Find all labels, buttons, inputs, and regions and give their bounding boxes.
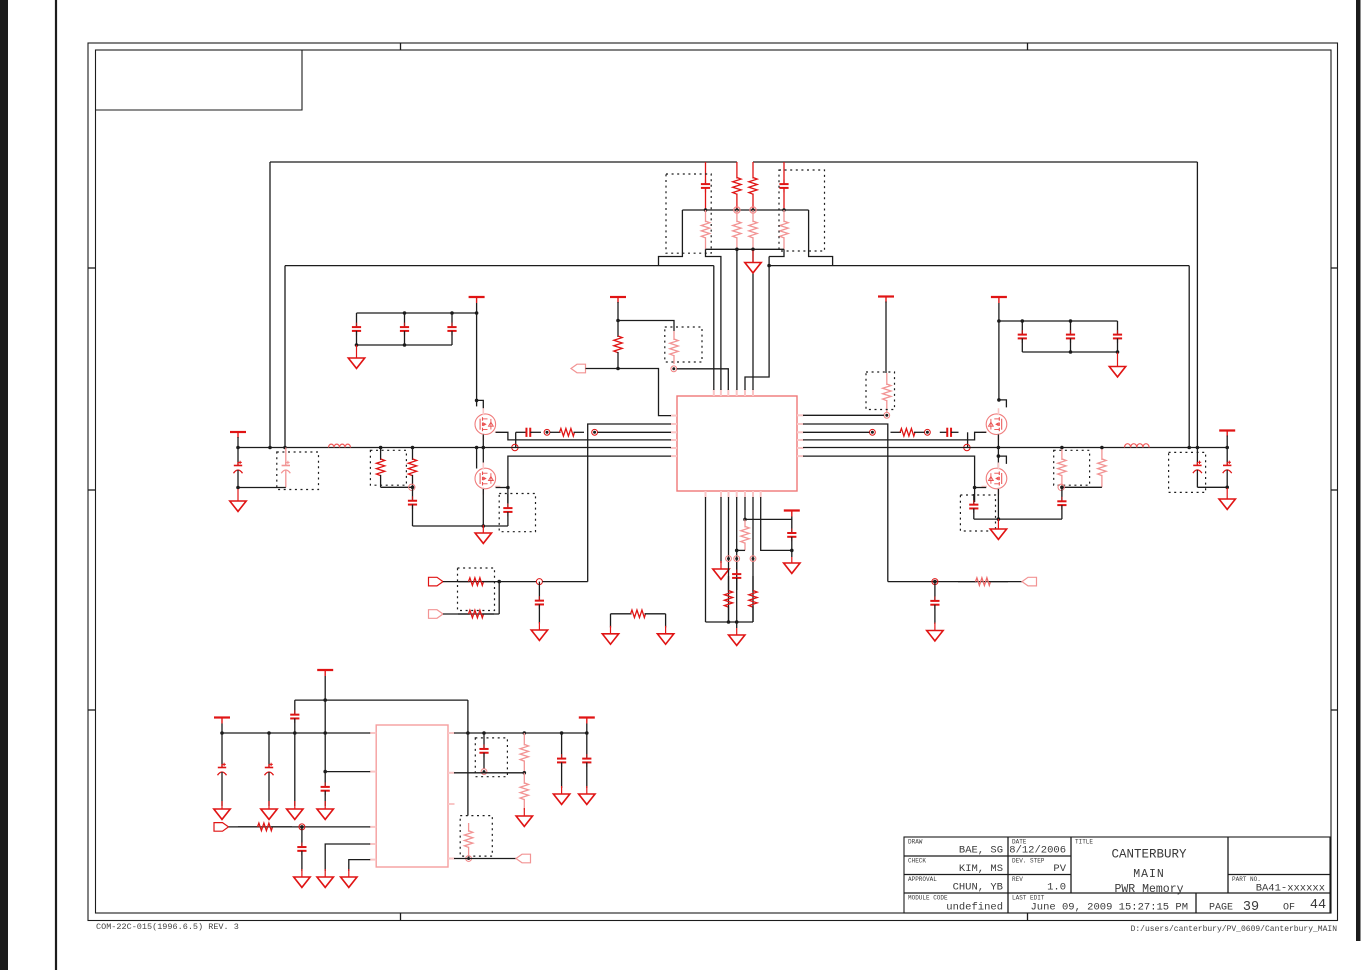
net flag IN1 (429, 577, 444, 586)
wire C10 drop to row448 (515, 432, 517, 447)
wire VIN1 down to Q1 drain (476, 303, 478, 406)
capacitor C8 (1113, 321, 1122, 352)
series resistor R10 (550, 429, 584, 437)
junction cluster mid c (751, 208, 755, 212)
resistor R7 (DNI) (670, 331, 678, 364)
wire U2 right row1 (454, 732, 587, 734)
power symbol VOUT1 (579, 718, 595, 724)
node ring bottom3 (726, 556, 732, 562)
resistor R18 (611, 610, 666, 618)
wire inner loop right vertical (1188, 266, 1190, 448)
frame tick right 1 (1331, 267, 1338, 269)
frame tick left 1 (88, 267, 96, 269)
svg-text:BA41-xxxxxx: BA41-xxxxxx (1256, 883, 1325, 895)
junction row1 b (267, 731, 271, 735)
junction right filter bottom (1225, 486, 1229, 490)
capacitor C22 (787, 519, 796, 550)
wire R12 R13 bottom link (381, 486, 413, 488)
transistor Q2 (475, 463, 500, 495)
wire Q4 source down (997, 489, 999, 519)
capacitor C18 (1057, 487, 1066, 519)
wire left cap bank top (357, 312, 477, 314)
IC U1 body (677, 396, 797, 491)
inductor L2 (1125, 444, 1150, 448)
wire IN1 node right (542, 581, 587, 583)
power symbol VIN1 (469, 297, 485, 303)
capacitor C5 (447, 313, 456, 345)
wire U2 row1 (222, 732, 370, 734)
node ring IN1 (536, 579, 542, 585)
ground pin bottom2 (713, 561, 729, 579)
wire row448 main left (238, 447, 671, 449)
ground U2 b (261, 801, 277, 819)
IC U1 top pin stubs (714, 390, 753, 397)
IC U1 right pin stubs (797, 415, 804, 456)
dotted box C16 (1169, 452, 1206, 492)
node ring EN1 (299, 824, 305, 830)
node ring C12 left (925, 429, 931, 435)
junction right bottom rail (997, 517, 1001, 521)
capacitor C23 (polarized) (218, 733, 227, 806)
dotted box cluster left (666, 174, 711, 253)
wire left bottom rail (413, 525, 508, 527)
junction left bottom rail (482, 524, 486, 528)
wire R18 right leg (665, 614, 667, 628)
capacitor C14 (polarized DNI) (281, 448, 290, 488)
junction row448 inner loop right (1187, 446, 1191, 450)
wire VREF1 rail (745, 517, 792, 520)
capacitor C3 (352, 313, 361, 345)
junction VDD1 (616, 319, 620, 323)
junction C5 top (450, 311, 454, 315)
node ring bottom4 (734, 556, 740, 562)
wire pin bottom7 down (761, 497, 792, 550)
capacitor C4 (400, 313, 409, 345)
capacitor C26 (321, 772, 330, 806)
wire VOUT1 stem (586, 724, 588, 734)
junction U2 right row2 (523, 771, 527, 775)
dotted box R14 (1054, 450, 1090, 485)
node ring R9 bottom (884, 412, 890, 418)
node ring C10 right (544, 429, 550, 435)
ground R25 (516, 808, 532, 826)
dotted box C14 (277, 452, 319, 490)
wire cluster mid rail (682, 209, 808, 211)
svg-text:8/12/2006: 8/12/2006 (1009, 845, 1066, 857)
junction R13 bottom (411, 486, 415, 490)
junction left cap bank (475, 311, 479, 315)
resistor R4 (DNI) (733, 210, 741, 249)
net flag SENSE1 (516, 854, 531, 863)
wire VBAT1 junction (237, 437, 239, 448)
wire VSYS2 stem (221, 724, 223, 734)
frame tick left 3 (88, 709, 96, 711)
wire C12 drop to row448 (967, 432, 969, 447)
svg-text:BAE, SG: BAE, SG (959, 845, 1003, 857)
dotted box R12 (370, 450, 406, 485)
svg-text:D:/users/canterbury/PV_0609/Ca: D:/users/canterbury/PV_0609/Canterbury_M… (1131, 925, 1338, 934)
title block row line 3 (904, 892, 1330, 894)
wire Q4 gate hook (998, 456, 1006, 464)
capacitor C13 (polarized) (234, 448, 243, 488)
power symbol VIN2 (991, 297, 1007, 303)
IC U1 bottom pin stubs (706, 491, 761, 498)
wire right bottom rail (974, 518, 1062, 520)
resistor R14 (DNI) (1058, 448, 1066, 488)
title block row line 2b (1228, 874, 1330, 876)
ground left cap bank (348, 345, 364, 368)
resistor R13 (408, 448, 416, 488)
dotted box C9 (499, 494, 535, 532)
right page margin bar (1356, 0, 1361, 941)
svg-text:DEV. STEP: DEV. STEP (1012, 858, 1045, 865)
wire bottom rail to ground (736, 622, 738, 628)
svg-text:REV: REV (1012, 876, 1023, 883)
resistor R9 (DNI) (883, 373, 891, 412)
title block col line 2 (1070, 837, 1072, 893)
wire inner loop left horizontal (285, 265, 714, 267)
title block outline (904, 837, 1330, 913)
junction VBAT1 (236, 446, 240, 450)
capacitor C30 (582, 733, 591, 788)
ground bottom rail (729, 628, 745, 645)
svg-text:1.0: 1.0 (1047, 882, 1066, 894)
junction U2 right row1 c (523, 731, 527, 735)
wire IN2 riser (498, 582, 500, 614)
wire OUT node (888, 581, 1022, 583)
IC U2 left pin stubs (370, 733, 377, 860)
ground C29 (553, 786, 569, 804)
wire VBAT2 junction (1226, 436, 1228, 448)
ground C27 (294, 869, 310, 887)
node ring R26 bottom (466, 856, 472, 862)
resistor R1 (733, 162, 741, 210)
wire cluster colB to pin top4 (736, 249, 738, 390)
IC U2 body (376, 725, 448, 867)
node ring R14 bottom (1058, 484, 1064, 490)
resistor R23 (238, 823, 292, 831)
junction OUT node (933, 580, 937, 584)
capacitor C7 (1066, 321, 1075, 352)
frame tick right 3 (1331, 709, 1338, 711)
junction cluster bottom b (751, 248, 755, 252)
ground R18 right (657, 626, 673, 644)
wire pin bottom4 down (736, 497, 738, 622)
node ring R1 bottom (734, 207, 740, 213)
svg-text:CHUN, YB: CHUN, YB (953, 882, 1003, 894)
frame tick bottom 1 (400, 913, 402, 921)
junction Q4 gate hook (997, 454, 1001, 458)
wire outer loop left vertical (269, 162, 271, 448)
junction C7 top (1069, 319, 1073, 323)
junction cluster mid a (704, 208, 708, 212)
net flag NETA (571, 364, 586, 373)
node ring row448 left (512, 444, 518, 450)
wire pin right2 drop (803, 424, 888, 582)
ground right filter (1219, 488, 1235, 509)
wire right filter bottom (1197, 486, 1227, 488)
capacitor C17 (polarized) (1223, 448, 1232, 488)
wire top bus right segment (753, 161, 1197, 163)
resistor R12 (376, 448, 384, 488)
wire VIN2 down to Q3 drain (998, 303, 1000, 400)
dotted box R26 (460, 816, 492, 857)
wire U2 pin4 row (325, 844, 370, 871)
svg-text:LAST EDIT: LAST EDIT (1012, 895, 1045, 902)
junction row448 outer loop right (1196, 446, 1200, 450)
capacitor C2 (779, 162, 788, 210)
junction row448 inner loop (283, 446, 287, 450)
capacitor C9 (503, 494, 512, 526)
junction Q1 chain row (482, 446, 486, 450)
capacitor C6 (1018, 321, 1027, 352)
left page margin bar (0, 0, 8, 970)
IC U1 left pin stubs (671, 416, 678, 457)
wire right loop to pin top5 (745, 257, 769, 391)
junction row1 a (220, 731, 224, 735)
wire C15 to left bottom rail (412, 518, 414, 526)
dotted box R9 (866, 372, 895, 410)
wire pin bottom6 down (752, 497, 754, 622)
capacitor C16 (polarized DNI) (1193, 448, 1202, 488)
wire right cap bank bottom (1022, 351, 1117, 353)
junction Q2 gate row (475, 446, 479, 450)
resistor R22 (749, 576, 757, 622)
wire R21 to net4 (737, 549, 745, 551)
ground U2 c (287, 801, 303, 819)
junction IN1 node (497, 580, 501, 584)
resistor R3 (DNI) (701, 210, 709, 249)
title block row line 1 (904, 855, 1071, 857)
wire Q1 source chain (482, 434, 484, 468)
svg-text:undefined: undefined (946, 902, 1003, 914)
junction Q4 source (973, 486, 977, 490)
resistor R21 (DNI) (741, 519, 749, 550)
svg-text:DRAW: DRAW (908, 839, 923, 846)
svg-text:PAGE: PAGE (1209, 903, 1233, 914)
ground C30 (579, 786, 595, 804)
svg-text:KIM, MS: KIM, MS (959, 863, 1003, 875)
junction bottom rail a (727, 620, 731, 624)
junction Q2 source (506, 486, 510, 490)
frame tick top 2 (1027, 43, 1029, 50)
frame tick bottom 2 (1027, 913, 1029, 921)
wire left filter bottom (238, 487, 286, 489)
wire Q2 source down (482, 489, 484, 526)
ground C19 (531, 622, 547, 640)
junction row1 c (293, 731, 297, 735)
wire IN1 to node (443, 581, 537, 583)
net flag OUT1 (1022, 577, 1037, 586)
junction row1 d (323, 731, 327, 735)
wire VDD1 down (617, 302, 619, 321)
wire Q4 source to row456 (975, 487, 987, 489)
wire U2 pin4r to flag (454, 858, 516, 860)
junction U2 right row1 e (585, 731, 589, 735)
junction L1 right side b (411, 446, 415, 450)
wire pin bottom5 down (744, 497, 746, 519)
svg-text:June 09, 2009 15:27:15 PM: June 09, 2009 15:27:15 PM (1030, 902, 1188, 914)
title block col line 3 (1227, 837, 1229, 893)
wire U2 feedback drop (467, 700, 469, 816)
series capacitor C10 (516, 428, 541, 437)
junction R14 bottom (1060, 486, 1064, 490)
wire cluster bottom rail (706, 248, 785, 250)
junction row448 outer loop (268, 446, 272, 450)
dotted box C11 (960, 495, 995, 531)
power symbol VDD2 (878, 297, 894, 303)
wire pin bottom1 down (705, 497, 707, 622)
svg-text:MAIN: MAIN (1133, 868, 1165, 881)
resistor R25 (DNI) (520, 773, 528, 810)
ground left half-bridge (475, 525, 491, 543)
node ring bottom6 (750, 556, 756, 562)
title block row line 2 (904, 874, 1071, 876)
svg-text:TITLE: TITLE (1075, 839, 1093, 846)
ground R18 left (602, 626, 618, 644)
junction Q1 drain jog (475, 399, 479, 403)
node ring R2 bottom (750, 207, 756, 213)
capacitor C27 (297, 827, 306, 871)
junction left cap bank bottom b (355, 343, 359, 347)
junction VBAT2 (1225, 446, 1229, 450)
junction R14 top (1060, 446, 1064, 450)
junction left filter bottom (236, 486, 240, 490)
wire U2 pin2 row (325, 771, 370, 773)
title block col line 1 (1007, 837, 1009, 913)
dotted box R16 R17 (458, 568, 495, 611)
wire right cap bank top (999, 320, 1118, 322)
svg-text:MODULE CODE: MODULE CODE (908, 895, 948, 902)
junction U2 right row1 d (560, 731, 564, 735)
capacitor C24 (polarized) (265, 733, 274, 806)
junction right cap bank bottom b (1116, 350, 1120, 354)
power symbol VSYS2 (214, 718, 230, 724)
net flag IN2 (429, 610, 444, 619)
wire C22 to ground (791, 550, 793, 557)
frame tick right 2 (1331, 489, 1338, 491)
wire row456 right (803, 456, 975, 502)
capacitor C11 (969, 494, 978, 519)
junction R8 bottom (616, 367, 620, 371)
wire bottom rail (706, 621, 754, 623)
wire inner loop left vertical (284, 266, 286, 448)
resistor R15 (DNI) (1098, 448, 1106, 488)
transistor Q4 (982, 463, 1007, 495)
wire row448 main right (803, 447, 1227, 449)
junction left cap bank bottom (403, 343, 407, 347)
node ring R7 bottom (671, 366, 677, 372)
frame tick left 2 (88, 489, 96, 491)
junction R15 top (1100, 446, 1104, 450)
wire pin bottom3 down (728, 497, 730, 622)
resistor R24 (DNI) (520, 733, 528, 773)
junction right cap bank (997, 319, 1001, 323)
junction U2 right row1 a (466, 731, 470, 735)
svg-text:PWR_Memory: PWR_Memory (1114, 883, 1183, 896)
node ring R13 bottom (409, 484, 415, 490)
title block col line 4 (1195, 893, 1197, 913)
ground left filter (230, 489, 246, 511)
junction U2 right row1 b (482, 731, 486, 735)
wire colC down to pin top6 (752, 249, 754, 390)
wire cluster left side (659, 210, 683, 266)
IC U2 right pin stubs (448, 733, 455, 859)
frame tick top 1 (400, 43, 402, 50)
wire Q3 source to row440 (803, 432, 986, 440)
capacitor C21 (732, 562, 741, 590)
resistor R6 (DNI) (780, 210, 788, 249)
junction bottom5 (743, 518, 747, 522)
ground right half-bridge (990, 519, 1006, 539)
power symbol VSYS1 (317, 670, 333, 676)
wire Q2 source to row456 (496, 487, 508, 489)
junction cluster mid b (735, 208, 739, 212)
wire U2 right row2 (454, 772, 524, 774)
wire cluster right side (809, 210, 833, 266)
wire Q2 gate drop (476, 448, 478, 469)
wire R18 left leg (610, 614, 612, 628)
node ring R11 left (870, 429, 876, 435)
left fold line (55, 0, 57, 970)
junction right cap bank bottom (1069, 350, 1073, 354)
svg-text:CANTERBURY: CANTERBURY (1111, 848, 1187, 862)
svg-text:44: 44 (1310, 898, 1326, 913)
dotted box R7 (665, 327, 702, 362)
junction cluster mid d (782, 208, 786, 212)
capacitor C1 (701, 162, 710, 210)
resistor R26 (DNI) (464, 823, 472, 856)
ground U2 pin4 (317, 869, 333, 887)
wire U2 top feedback (295, 699, 468, 701)
power symbol VDD1 (610, 297, 626, 303)
transistor Q3 (982, 408, 1007, 440)
wire left cap bank bottom (357, 344, 453, 346)
capacitor C20 (930, 582, 939, 624)
capacitor C28 (479, 733, 488, 769)
wire pin bottom2 down (720, 497, 722, 563)
capacitor C29 (557, 733, 566, 788)
resistor R19 (958, 578, 1008, 586)
capacitor C15 (408, 487, 417, 518)
power symbol VBAT2 (1219, 431, 1235, 437)
junction bottom rail b (735, 620, 739, 624)
wire pin right3 to R11 (803, 431, 870, 433)
node ring R10 right (592, 429, 598, 435)
net flag EN1 (214, 823, 229, 832)
wire Q3 drain jog (999, 400, 1007, 408)
svg-text:PV: PV (1053, 863, 1066, 875)
svg-text:COM-22C-015(1996.6.5) REV. 3: COM-22C-015(1996.6.5) REV. 3 (96, 922, 239, 932)
wire C25 down (294, 733, 296, 806)
dotted box C28 (475, 738, 507, 777)
capacitor C25 (290, 700, 299, 733)
wire U2 pin5 row (349, 860, 370, 871)
wire VSYS1 down (324, 676, 326, 772)
junction R21 net4 (735, 549, 739, 553)
wire EN1 row (229, 826, 371, 828)
junction Q3 drain jog (997, 398, 1001, 402)
wire Q3 source chain (997, 434, 999, 468)
node ring row448 right (964, 444, 970, 450)
wire NETA to pin left1 (586, 369, 672, 416)
junction EN1 node (300, 825, 304, 829)
wire VDD2 down (885, 302, 887, 374)
junction inner loop right (767, 264, 771, 268)
wire R10 to pin left3 (598, 431, 672, 433)
svg-text:OF: OF (1283, 903, 1295, 914)
junction C4 top (403, 311, 407, 315)
